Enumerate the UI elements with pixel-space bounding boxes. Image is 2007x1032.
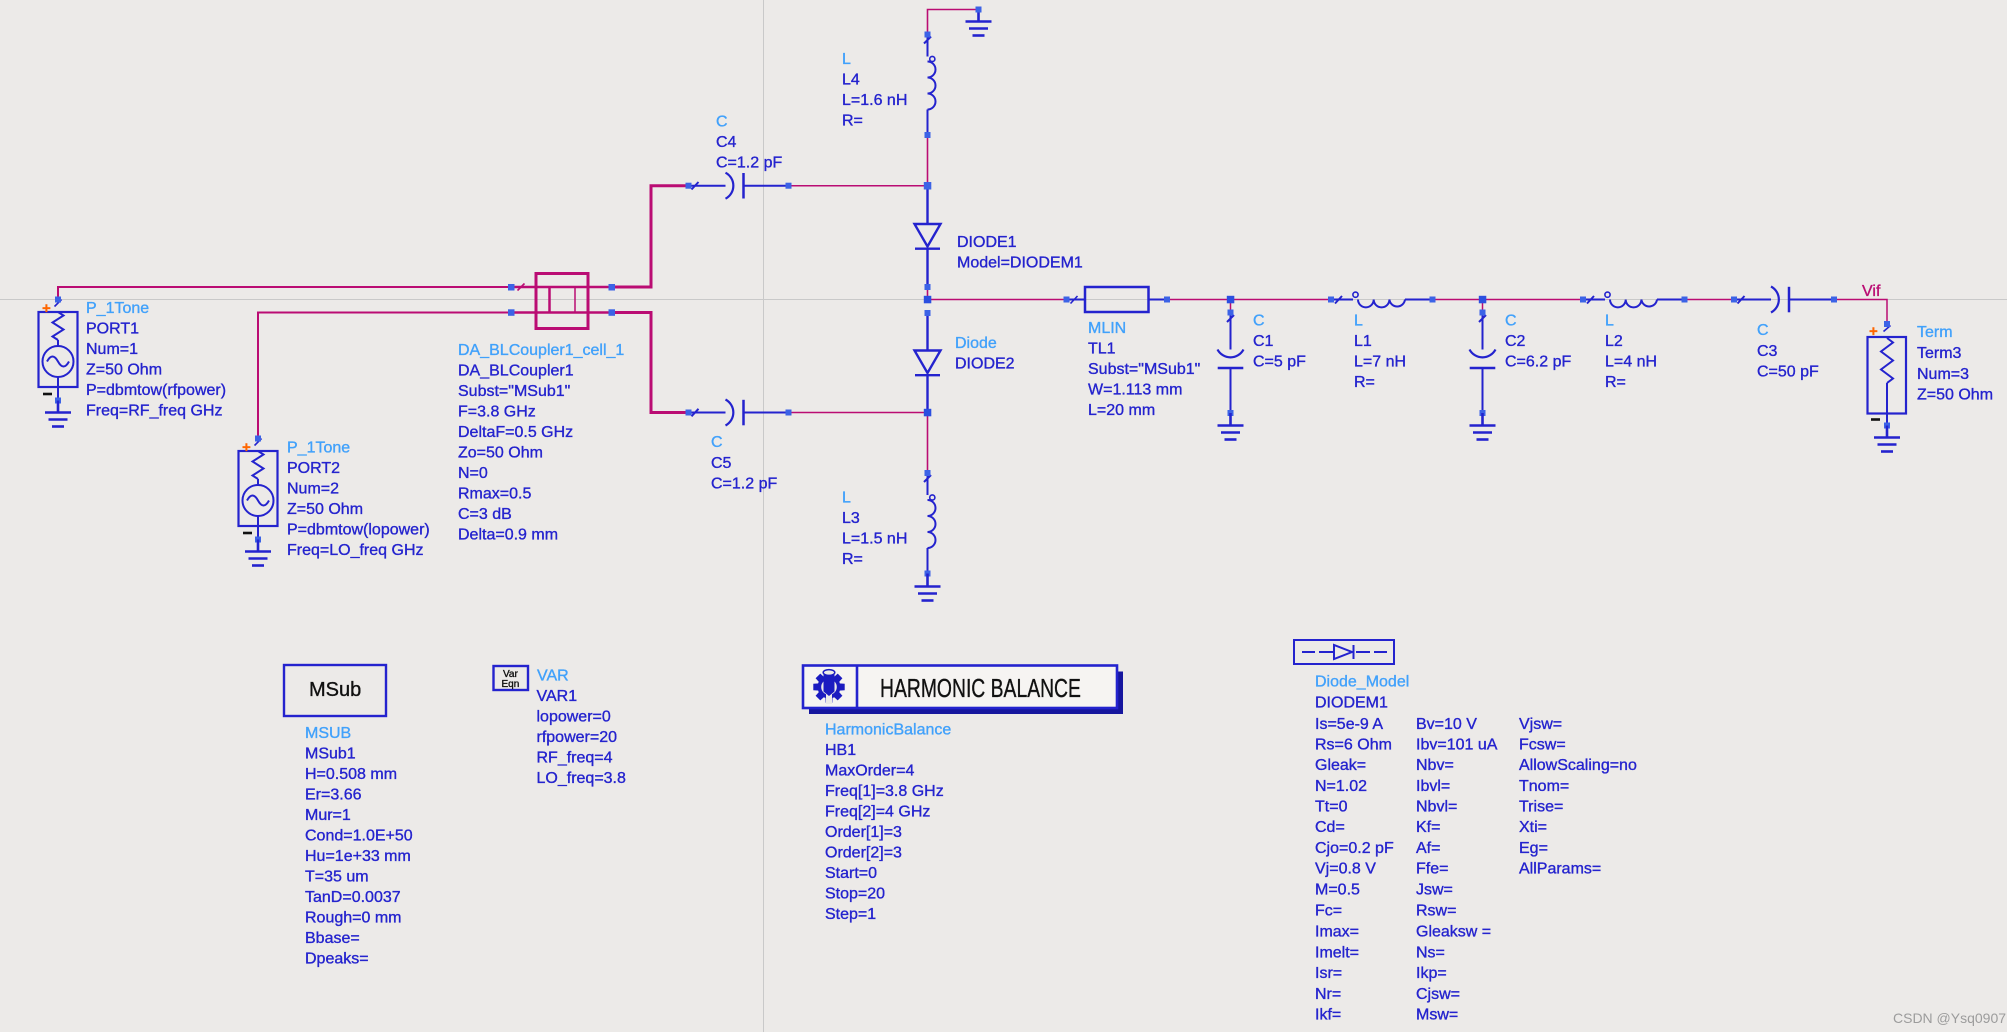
svg-text:Order[2]=3: Order[2]=3 (825, 845, 902, 862)
diode D2 pin square (925, 310, 931, 316)
svg-text:T=35 um: T=35 um (305, 869, 369, 886)
svg-text:Z=50 Ohm: Z=50 Ohm (287, 501, 363, 518)
svg-text:Zo=50 Ohm: Zo=50 Ohm (458, 445, 543, 462)
svg-text:Eqn: Eqn (502, 679, 520, 690)
microstrip line TL1 (1067, 287, 1168, 312)
svg-text:Tt=0: Tt=0 (1315, 799, 1348, 816)
svg-text:Freq[2]=4 GHz: Freq[2]=4 GHz (825, 804, 930, 821)
svg-text:+: + (1869, 323, 1878, 340)
capacitor C1 pin squares (1228, 310, 1234, 417)
label capacitor C5 (711, 434, 777, 493)
svg-text:C=3 dB: C=3 dB (458, 506, 512, 523)
svg-text:Af=: Af= (1416, 840, 1440, 857)
node C2 junction square (1479, 296, 1487, 304)
svg-text:Order[1]=3: Order[1]=3 (825, 824, 902, 841)
Term3 minus mark (1871, 418, 1880, 421)
svg-text:Ibvl=: Ibvl= (1416, 778, 1450, 795)
svg-text:Nbvl=: Nbvl= (1416, 799, 1457, 816)
svg-text:Isr=: Isr= (1315, 965, 1342, 982)
origin crosshair horizontal axis (0, 299, 2007, 301)
termination Term3 (1868, 326, 1907, 426)
label Diode_Model params column 2 (1416, 716, 1498, 1024)
node C1 junction square (1227, 296, 1235, 304)
svg-text:Freq[1]=3.8 GHz: Freq[1]=3.8 GHz (825, 783, 944, 800)
inductor L1 pin squares (1328, 297, 1436, 303)
capacitor C2 pin squares (1480, 310, 1486, 417)
ground pin square at L4 top (976, 7, 982, 13)
svg-text:Z=50 Ohm: Z=50 Ohm (86, 362, 162, 379)
ground at L3 bottom (915, 574, 941, 601)
label inductor L4 (842, 51, 907, 130)
capacitor C1 (1218, 313, 1244, 414)
svg-text:R=: R= (1605, 374, 1626, 391)
wire node C1 stub (1230, 300, 1232, 313)
node A junction square (924, 182, 932, 190)
Term3 pin squares (1884, 321, 1890, 429)
wire C3 to Term via node Vif (1834, 300, 1887, 325)
svg-text:Ffe=: Ffe= (1416, 861, 1448, 878)
label diode D1 (957, 234, 1083, 272)
svg-text:Is=5e-9 A: Is=5e-9 A (1315, 716, 1383, 733)
svg-text:L=1.5 nH: L=1.5 nH (842, 531, 907, 548)
Harmonic Balance controller box (803, 666, 1123, 715)
svg-text:N=0: N=0 (458, 465, 488, 482)
label capacitor C1 (1253, 313, 1306, 371)
wire L4 bottom to node A (927, 135, 929, 186)
wire node C to MLIN (928, 299, 1067, 301)
label P_1Tone PORT2 (287, 440, 430, 560)
svg-text:L3: L3 (842, 510, 860, 527)
svg-text:Dpeaks=: Dpeaks= (305, 951, 369, 968)
coupler pin squares (508, 284, 615, 316)
svg-text:MSub1: MSub1 (305, 746, 356, 763)
ground at L4 top (966, 10, 992, 36)
svg-text:rfpower=20: rfpower=20 (537, 729, 618, 746)
svg-text:Trise=: Trise= (1519, 799, 1563, 816)
svg-text:HARMONIC BALANCE: HARMONIC BALANCE (880, 673, 1081, 703)
port P2 pin squares (255, 436, 261, 543)
svg-text:L4: L4 (842, 72, 860, 89)
svg-text:R=: R= (842, 551, 863, 568)
svg-text:MLIN: MLIN (1088, 320, 1126, 337)
svg-text:Fc=: Fc= (1315, 903, 1342, 920)
svg-text:C4: C4 (716, 134, 737, 151)
label P_1Tone PORT1 (86, 300, 226, 420)
capacitor C3 (1734, 287, 1834, 313)
svg-text:L=4 nH: L=4 nH (1605, 354, 1657, 371)
svg-text:LO_freq=3.8: LO_freq=3.8 (537, 770, 627, 787)
svg-text:C: C (1505, 313, 1517, 330)
svg-text:DA_BLCoupler1: DA_BLCoupler1 (458, 363, 574, 380)
origin crosshair vertical axis (763, 0, 765, 1032)
MSub box (284, 665, 386, 716)
label Diode_Model DIODEM1 params column 1 (1315, 674, 1409, 1024)
svg-text:PORT1: PORT1 (86, 321, 139, 338)
svg-text:Tnom=: Tnom= (1519, 778, 1569, 795)
svg-text:C=1.2 pF: C=1.2 pF (716, 155, 782, 172)
svg-text:Ikf=: Ikf= (1315, 1007, 1341, 1024)
inductor L2 pin squares (1580, 297, 1688, 303)
svg-text:Diode: Diode (955, 335, 997, 352)
svg-text:C=6.2 pF: C=6.2 pF (1505, 354, 1571, 371)
capacitor C2 (1470, 313, 1496, 414)
svg-text:DA_BLCoupler1_cell_1: DA_BLCoupler1_cell_1 (458, 342, 624, 359)
svg-text:VAR: VAR (537, 668, 569, 685)
label diode D2 (955, 335, 1015, 373)
ground of port P1 (45, 401, 71, 427)
svg-text:Vjsw=: Vjsw= (1519, 716, 1562, 733)
svg-text:MSub: MSub (309, 679, 361, 701)
port P1 symbol (39, 300, 78, 401)
label MSUB MSub1 params (305, 725, 413, 968)
svg-text:Step=1: Step=1 (825, 906, 876, 923)
svg-text:Rs=6 Ohm: Rs=6 Ohm (1315, 737, 1392, 754)
diode D2 (915, 313, 941, 413)
wire C4 to node A (789, 185, 928, 187)
port P1 minus mark (43, 393, 52, 396)
wire coupler to C4 (612, 186, 689, 287)
svg-text:Bv=10 V: Bv=10 V (1416, 716, 1477, 733)
svg-text:L=7 nH: L=7 nH (1354, 354, 1406, 371)
svg-text:VAR1: VAR1 (537, 688, 578, 705)
label VAR1 params (537, 668, 627, 788)
port P2 minus mark (243, 532, 252, 535)
svg-text:Cjsw=: Cjsw= (1416, 986, 1460, 1003)
capacitor C5 (689, 400, 789, 426)
svg-text:Subst="MSub1": Subst="MSub1" (458, 383, 570, 400)
svg-text:MaxOrder=4: MaxOrder=4 (825, 763, 914, 780)
label inductor L1 (1354, 313, 1406, 392)
svg-text:C1: C1 (1253, 333, 1274, 350)
inductor L1 (1331, 292, 1433, 307)
diode D1 pin square (925, 284, 931, 290)
svg-text:Msw=: Msw= (1416, 1007, 1458, 1024)
svg-text:Term3: Term3 (1917, 345, 1962, 362)
Harmonic Balance gear icon (813, 670, 844, 704)
svg-text:Term: Term (1917, 324, 1953, 341)
svg-text:L=1.6 nH: L=1.6 nH (842, 92, 907, 109)
svg-text:+: + (242, 439, 251, 456)
svg-text:Ibv=101 uA: Ibv=101 uA (1416, 737, 1498, 754)
svg-text:Num=1: Num=1 (86, 341, 138, 358)
svg-text:AllowScaling=no: AllowScaling=no (1519, 757, 1637, 774)
label capacitor C4 (716, 114, 782, 172)
svg-text:Rmax=0.5: Rmax=0.5 (458, 486, 531, 503)
ground at C2 (1470, 413, 1496, 440)
wire port2 to coupler (258, 313, 511, 439)
svg-text:AllParams=: AllParams= (1519, 861, 1601, 878)
wire diode1 to node C (927, 287, 929, 300)
svg-text:Nr=: Nr= (1315, 986, 1341, 1003)
svg-text:H=0.508 mm: H=0.508 mm (305, 766, 397, 783)
svg-text:Fcsw=: Fcsw= (1519, 737, 1566, 754)
label Diode_Model params column 3 (1519, 716, 1637, 878)
label inductor L3 (842, 490, 907, 569)
svg-text:Vj=0.8 V: Vj=0.8 V (1315, 861, 1376, 878)
svg-text:L: L (842, 51, 851, 68)
svg-text:C2: C2 (1505, 333, 1526, 350)
svg-text:Delta=0.9 mm: Delta=0.9 mm (458, 527, 558, 544)
svg-text:Rsw=: Rsw= (1416, 903, 1456, 920)
svg-text:F=3.8 GHz: F=3.8 GHz (458, 404, 536, 421)
label HarmonicBalance HB1 params (825, 722, 951, 924)
svg-text:C3: C3 (1757, 343, 1778, 360)
svg-text:DIODE2: DIODE2 (955, 356, 1015, 373)
svg-text:HB1: HB1 (825, 742, 856, 759)
node C junction square (924, 296, 932, 304)
svg-text:Nbv=: Nbv= (1416, 757, 1454, 774)
svg-text:Vif: Vif (1862, 283, 1881, 300)
svg-text:C: C (1757, 322, 1769, 339)
wire port1 to coupler (58, 287, 511, 300)
wire L4 top to ground (928, 10, 979, 35)
svg-text:Cd=: Cd= (1315, 819, 1345, 836)
svg-text:Subst="MSub1": Subst="MSub1" (1088, 361, 1200, 378)
svg-text:Er=3.66: Er=3.66 (305, 787, 362, 804)
svg-text:Z=50 Ohm: Z=50 Ohm (1917, 387, 1993, 404)
label capacitor C2 (1505, 313, 1571, 371)
wire coupler to C5 (612, 313, 689, 413)
svg-text:Imelt=: Imelt= (1315, 945, 1359, 962)
svg-text:C=50 pF: C=50 pF (1757, 364, 1819, 381)
VAR equation box (494, 666, 529, 690)
svg-text:TanD=0.0037: TanD=0.0037 (305, 889, 401, 906)
diode D1 (915, 186, 941, 287)
svg-text:PORT2: PORT2 (287, 460, 340, 477)
wire node C2 stub (1482, 300, 1484, 313)
wire MLIN to L1 (1167, 299, 1331, 301)
svg-text:R=: R= (842, 113, 863, 130)
svg-text:Stop=20: Stop=20 (825, 886, 885, 903)
svg-text:P_1Tone: P_1Tone (86, 300, 149, 317)
microstrip TL1 pin squares (1064, 297, 1171, 303)
svg-text:L1: L1 (1354, 333, 1372, 350)
svg-text:RF_freq=4: RF_freq=4 (537, 750, 613, 767)
node B junction square (924, 409, 932, 417)
svg-text:Hu=1e+33 mm: Hu=1e+33 mm (305, 848, 411, 865)
svg-text:Model=DIODEM1: Model=DIODEM1 (957, 255, 1083, 272)
ground at C1 (1218, 413, 1244, 440)
svg-text:Freq=RF_freq GHz: Freq=RF_freq GHz (86, 403, 222, 420)
svg-text:Ns=: Ns= (1416, 945, 1445, 962)
svg-text:MSUB: MSUB (305, 725, 351, 742)
port P2 symbol (239, 439, 278, 540)
svg-text:Jsw=: Jsw= (1416, 882, 1453, 899)
svg-text:L: L (842, 490, 851, 507)
svg-text:Cjo=0.2 pF: Cjo=0.2 pF (1315, 840, 1394, 857)
svg-text:C: C (716, 114, 728, 131)
capacitor C4 (689, 173, 789, 199)
ground of port P2 (245, 540, 271, 566)
svg-text:Start=0: Start=0 (825, 865, 877, 882)
svg-text:lopower=0: lopower=0 (537, 709, 611, 726)
svg-text:Eg=: Eg= (1519, 840, 1548, 857)
label Term3 (1917, 324, 1993, 404)
svg-text:Rough=0 mm: Rough=0 mm (305, 910, 402, 927)
svg-text:CSDN @Ysq0907: CSDN @Ysq0907 (1893, 1010, 2006, 1026)
svg-text:Gleak=: Gleak= (1315, 757, 1366, 774)
svg-text:TL1: TL1 (1088, 341, 1116, 358)
inductor L2 (1583, 292, 1685, 307)
svg-text:C: C (711, 434, 723, 451)
inductor L3 pin squares (925, 470, 931, 577)
svg-text:C: C (1253, 313, 1265, 330)
svg-text:Num=3: Num=3 (1917, 366, 1969, 383)
svg-text:Ikp=: Ikp= (1416, 965, 1447, 982)
svg-text:L=20 mm: L=20 mm (1088, 402, 1155, 419)
svg-text:Freq=LO_freq GHz: Freq=LO_freq GHz (287, 542, 424, 559)
svg-text:HarmonicBalance: HarmonicBalance (825, 722, 951, 739)
svg-text:Diode_Model: Diode_Model (1315, 674, 1409, 691)
coupler U1 symbol (511, 274, 612, 329)
svg-text:P=dbmtow(lopower): P=dbmtow(lopower) (287, 522, 430, 539)
svg-text:Mur=1: Mur=1 (305, 807, 351, 824)
svg-text:Cond=1.0E+50: Cond=1.0E+50 (305, 828, 413, 845)
svg-text:C=5 pF: C=5 pF (1253, 354, 1306, 371)
capacitor C3 pin squares (1731, 297, 1837, 303)
svg-text:N=1.02: N=1.02 (1315, 778, 1367, 795)
svg-text:Imax=: Imax= (1315, 924, 1359, 941)
wire L1 to L2 (1433, 299, 1584, 301)
label DA_BLCoupler1 params (458, 342, 624, 544)
label inductor L2 (1605, 313, 1657, 392)
port P1 pin squares (55, 297, 61, 404)
label microstrip TL1 (1088, 320, 1200, 419)
svg-text:Kf=: Kf= (1416, 819, 1440, 836)
svg-text:Xti=: Xti= (1519, 819, 1547, 836)
svg-text:DIODEM1: DIODEM1 (1315, 695, 1388, 712)
svg-text:Bbase=: Bbase= (305, 930, 360, 947)
svg-text:W=1.113 mm: W=1.113 mm (1088, 382, 1182, 399)
ground at Term3 (1874, 426, 1900, 452)
svg-text:C5: C5 (711, 455, 732, 472)
svg-text:Num=2: Num=2 (287, 481, 339, 498)
svg-text:C=1.2 pF: C=1.2 pF (711, 476, 777, 493)
svg-text:L2: L2 (1605, 333, 1623, 350)
inductor L4 pin squares (925, 32, 931, 139)
inductor L3 (924, 473, 936, 574)
svg-text:L: L (1354, 313, 1363, 330)
inductor L4 (924, 35, 936, 136)
capacitor C5 pin squares (686, 410, 792, 416)
wire C5 to node B (789, 412, 928, 414)
svg-text:+: + (42, 300, 51, 317)
svg-text:P_1Tone: P_1Tone (287, 440, 350, 457)
svg-text:M=0.5: M=0.5 (1315, 882, 1360, 899)
svg-text:Gleaksw =: Gleaksw = (1416, 924, 1491, 941)
svg-text:DeltaF=0.5 GHz: DeltaF=0.5 GHz (458, 424, 573, 441)
svg-text:L: L (1605, 313, 1614, 330)
svg-text:R=: R= (1354, 374, 1375, 391)
label capacitor C3 (1757, 322, 1819, 381)
Diode_Model symbol box (1294, 640, 1394, 664)
svg-text:P=dbmtow(rfpower): P=dbmtow(rfpower) (86, 382, 226, 399)
capacitor C4 pin squares (686, 183, 792, 189)
wire node B to L3 (927, 413, 929, 474)
wire L2 to C3 (1685, 299, 1735, 301)
svg-text:DIODE1: DIODE1 (957, 234, 1017, 251)
